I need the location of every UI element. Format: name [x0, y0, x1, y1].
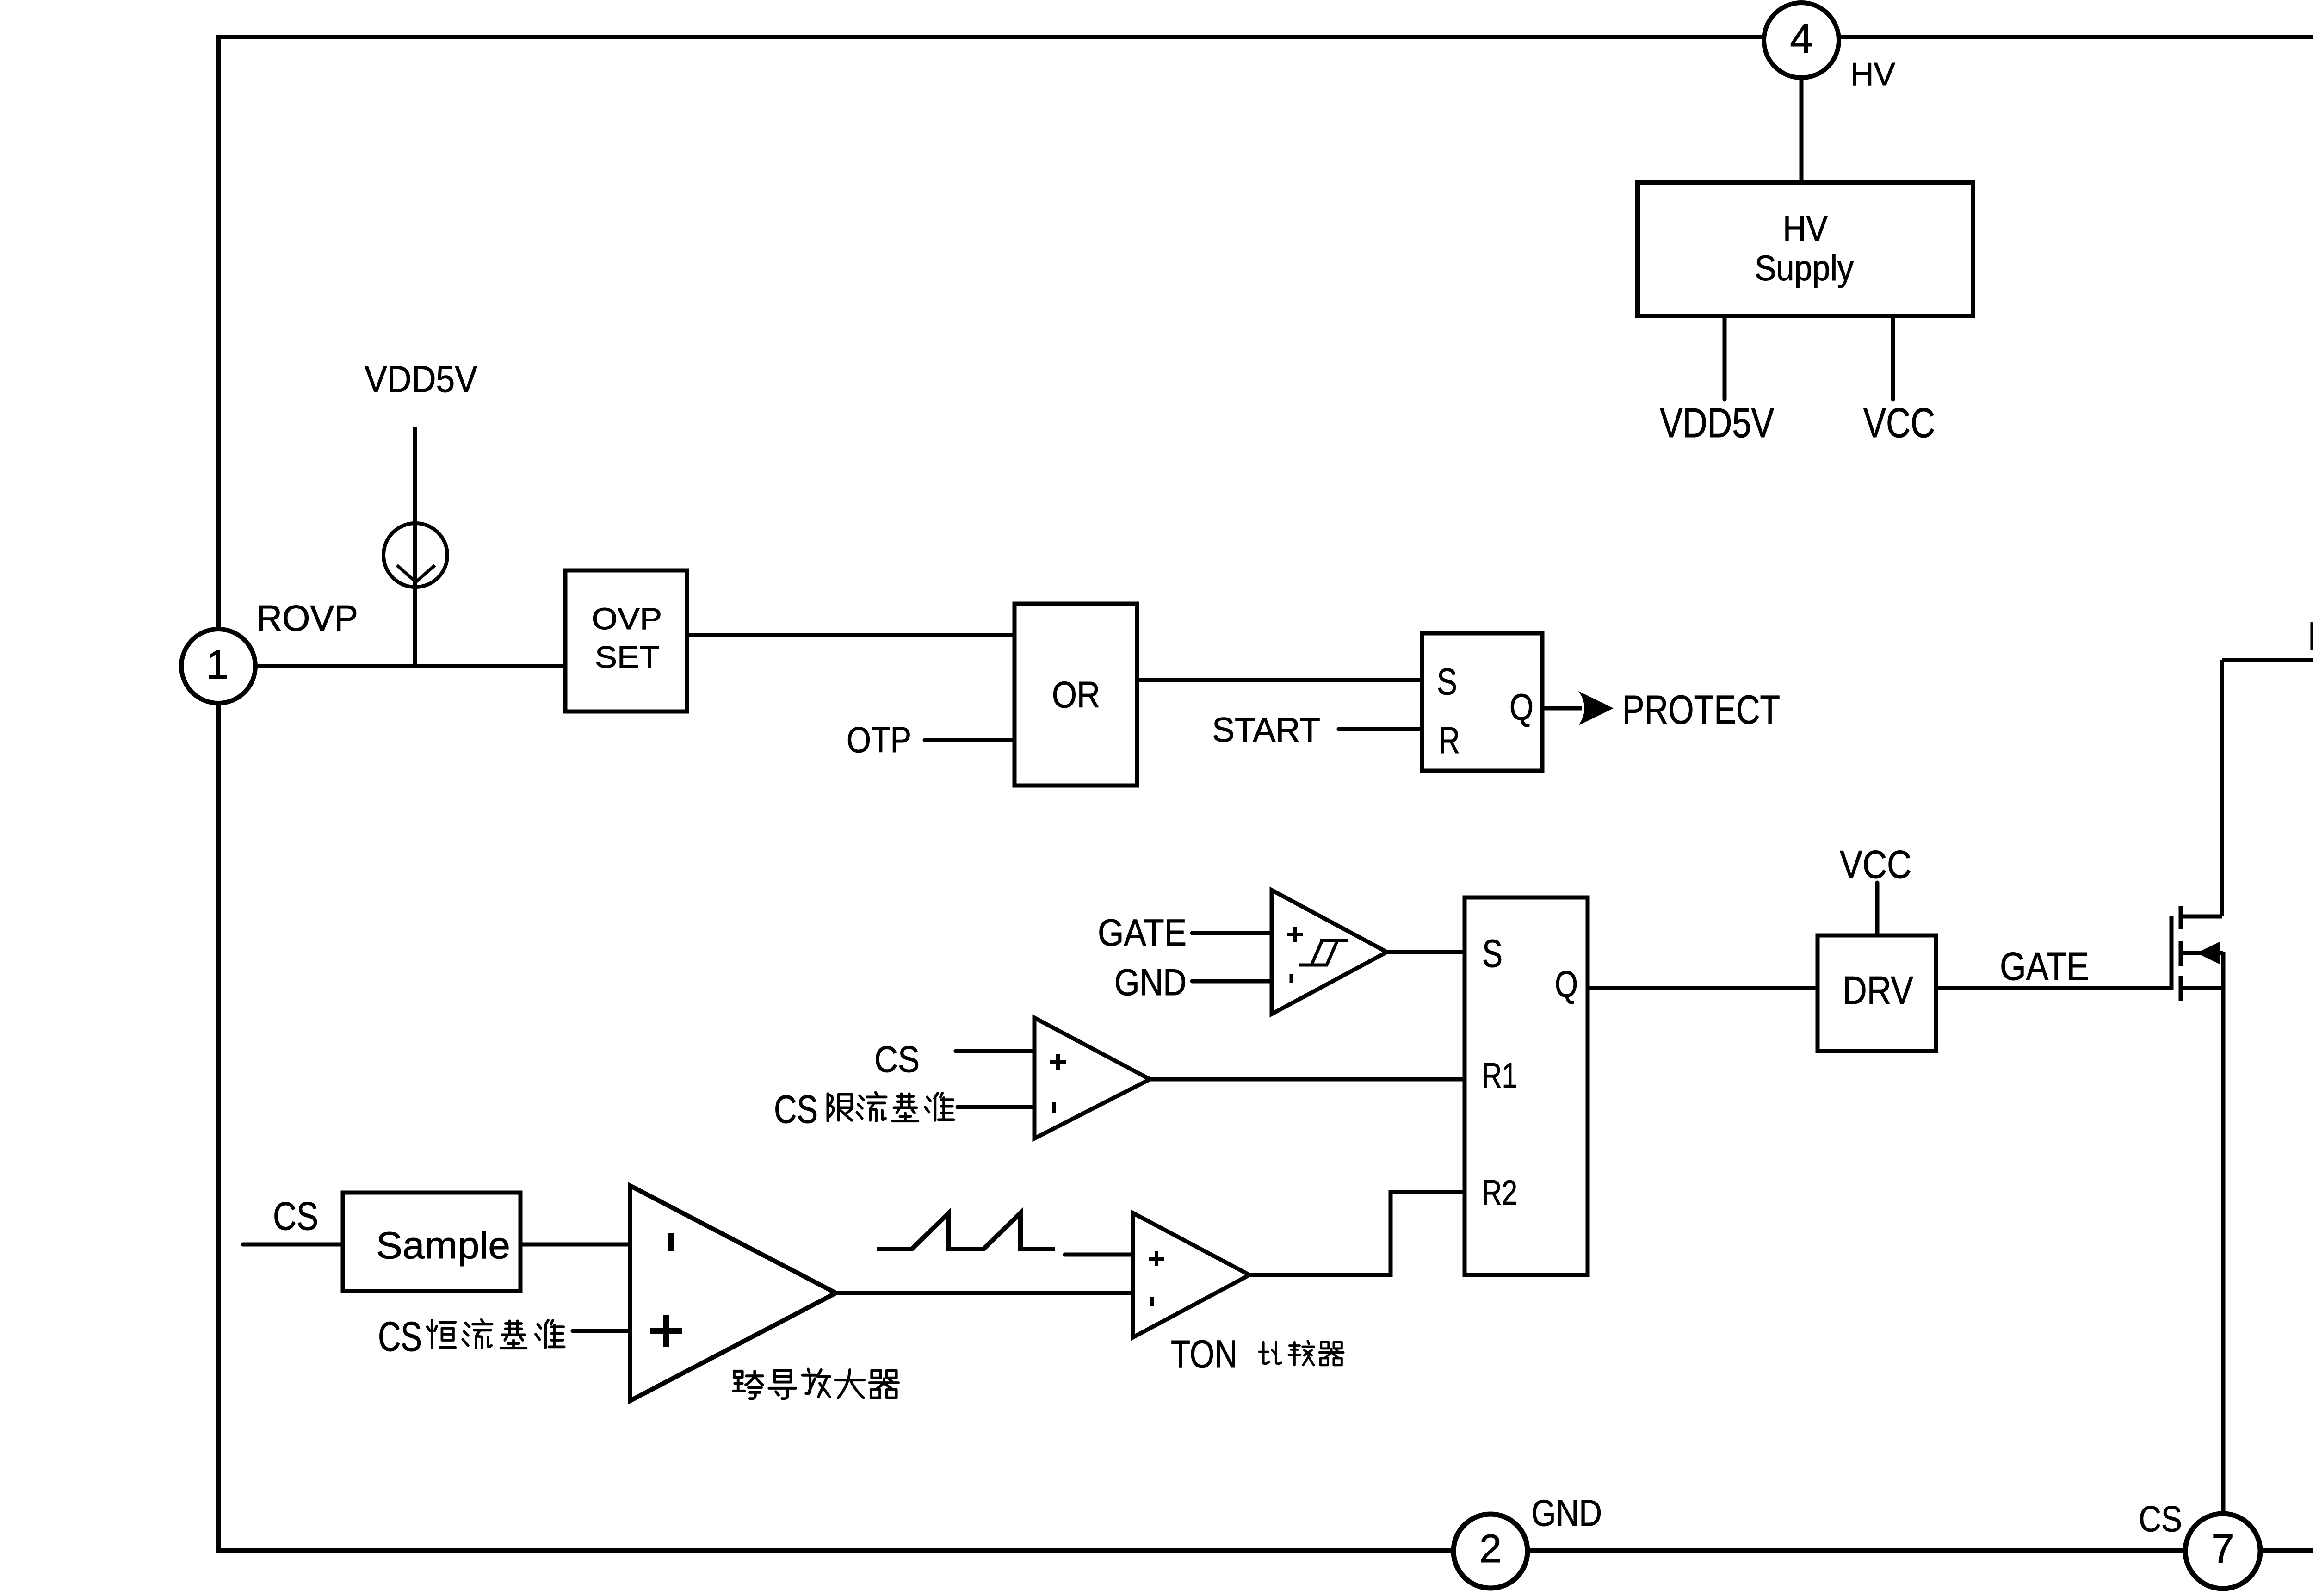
svg-text:GND: GND [1114, 962, 1187, 1003]
svg-text:R1: R1 [1482, 1056, 1517, 1095]
svg-text:CS: CS [774, 1088, 818, 1132]
svg-text:HV: HV [1850, 56, 1895, 92]
svg-text:OR: OR [1052, 674, 1100, 715]
svg-text:CS: CS [2139, 1498, 2182, 1539]
svg-text:7: 7 [2211, 1525, 2234, 1571]
svg-text:VCC: VCC [1863, 400, 1935, 446]
svg-text:PROTECT: PROTECT [1622, 687, 1780, 732]
svg-text:R2: R2 [1482, 1173, 1517, 1212]
svg-text:GATE: GATE [2000, 945, 2089, 989]
svg-text:VDD5V: VDD5V [1660, 400, 1774, 446]
svg-text:VDD5V: VDD5V [365, 359, 477, 400]
svg-text:1: 1 [206, 641, 229, 687]
svg-text:CS: CS [378, 1314, 422, 1360]
svg-text:S: S [1437, 661, 1457, 703]
svg-text:OTP: OTP [847, 719, 911, 760]
svg-text:Sample: Sample [376, 1225, 510, 1267]
svg-text:Q: Q [1555, 964, 1578, 1005]
svg-text:GND: GND [1531, 1492, 1602, 1534]
svg-text:VCC: VCC [1840, 843, 1911, 887]
svg-text:DRV: DRV [1843, 969, 1913, 1013]
svg-text:SET: SET [595, 640, 660, 674]
svg-text:Supply: Supply [1755, 248, 1854, 288]
svg-text:TON: TON [1171, 1332, 1237, 1376]
svg-text:S: S [1482, 932, 1503, 975]
svg-text:CS: CS [874, 1039, 920, 1080]
svg-text:CS: CS [273, 1194, 318, 1238]
svg-text:OVP: OVP [592, 601, 662, 636]
svg-text:ROVP: ROVP [256, 598, 358, 638]
svg-text:DRAIN: DRAIN [2308, 614, 2313, 658]
svg-text:4: 4 [1790, 15, 1813, 62]
svg-text:HV: HV [1783, 208, 1828, 249]
svg-text:START: START [1212, 711, 1320, 749]
svg-text:R: R [1439, 720, 1460, 761]
svg-text:Q: Q [1509, 687, 1534, 728]
svg-text:2: 2 [1479, 1527, 1502, 1571]
svg-text:GATE: GATE [1098, 912, 1187, 954]
